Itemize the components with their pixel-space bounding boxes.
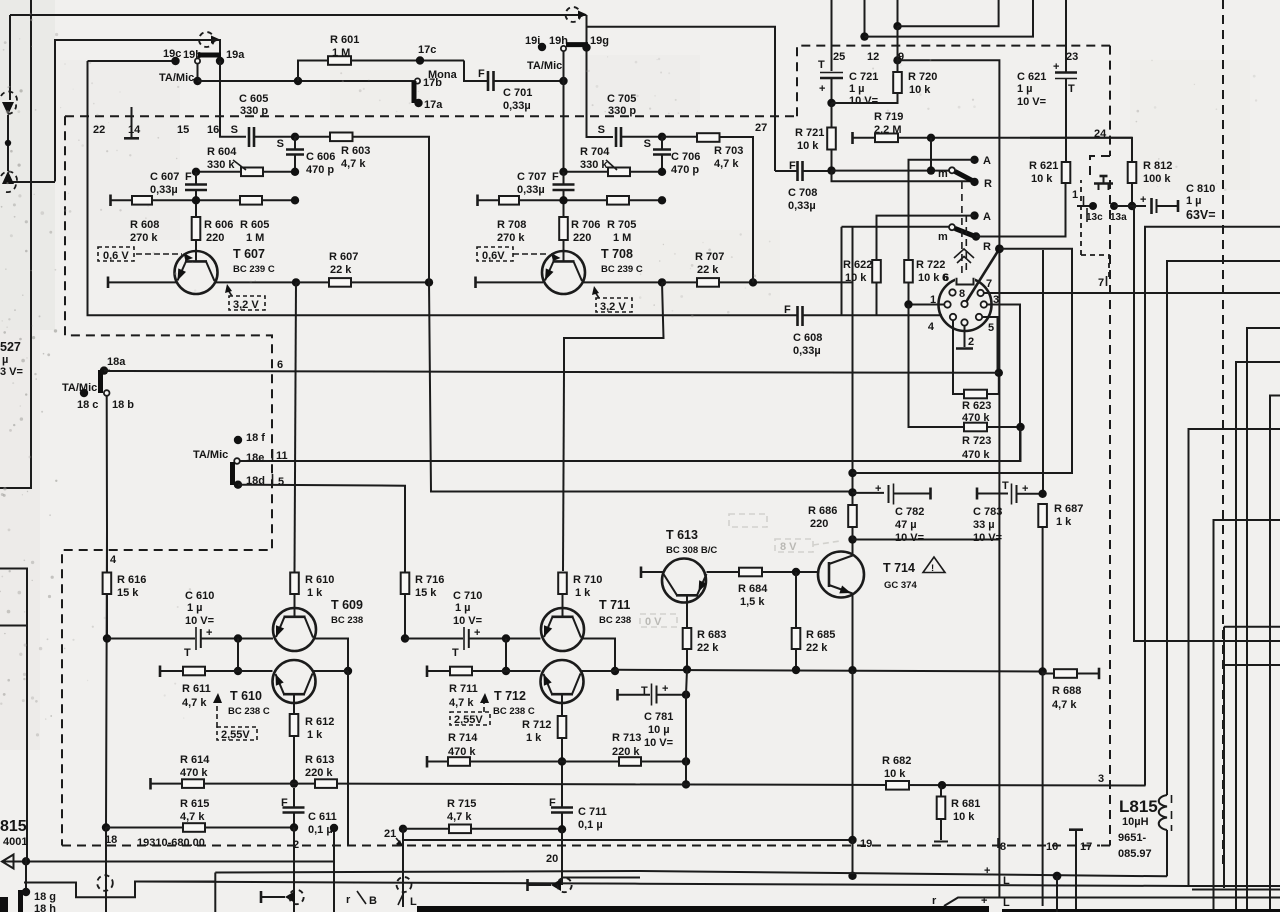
resistor R710 vertical [558,573,567,595]
node R719/x931 [927,134,935,142]
wire y=170.6 to pivot [832,170,950,172]
pin4 wire down [953,320,964,394]
svg-text:10 k: 10 k [797,140,819,152]
node C610/T609 [234,634,242,642]
svg-text:1 µ: 1 µ [849,83,865,95]
svg-text:12: 12 [867,51,879,63]
node arm top [995,244,1004,253]
svg-text:R 685: R 685 [806,629,835,641]
svg-text:R 706: R 706 [571,219,600,231]
wire head right stub [562,877,640,879]
svg-text:19h: 19h [549,35,568,47]
svg-text:23: 23 [1066,51,1078,63]
wire column x=662 down corner to x=564 [564,282,664,371]
svg-text:TA/Mic: TA/Mic [159,72,194,84]
svg-text:T 712: T 712 [494,689,526,703]
resistor R611 [183,667,205,676]
wire T613 base left [641,571,663,573]
resistor R613 [315,779,337,788]
svg-text:T: T [818,59,825,71]
svg-text:10 V=: 10 V= [185,615,214,627]
svg-text:S: S [644,138,651,150]
svg-text:R 682: R 682 [882,755,911,767]
wire 19b drop [197,64,199,82]
svg-text:527: 527 [0,340,21,354]
svg-text:C 721: C 721 [849,71,878,83]
wire x=106 down [105,828,107,912]
resistor R607 [329,278,351,287]
wire R608 row [111,199,295,201]
head terminal bar mid [526,879,529,891]
wire R623 right up [987,373,999,394]
node x429-rail/x852 [848,488,856,496]
svg-text:C 706: C 706 [671,151,700,163]
dot 18f [234,436,242,444]
svg-text:4: 4 [110,554,117,566]
resistor R601 [328,56,351,65]
terminal bar R708 [476,195,479,207]
svg-text:21: 21 [384,828,396,840]
node R704 right [658,168,666,176]
wire R812 bottom [1131,183,1133,206]
switch m1 lever [955,172,973,182]
wire L815 down to bottom bus [1166,830,1168,876]
svg-text:4,7 k: 4,7 k [182,697,207,709]
svg-text:L: L [1003,897,1010,909]
measure arrow 3.2V [228,290,232,296]
wire y=39.5 feeder [55,40,220,182]
arrow 21 [396,838,402,845]
svg-text:C 783: C 783 [973,506,1002,518]
terminal bar R608 [109,195,112,207]
connector circle half left edge top [1,91,17,114]
wire collector T708 [582,281,662,283]
wire pin3 col down corner left y=461 [238,427,1021,461]
svg-text:R 687: R 687 [1054,503,1083,515]
svg-text:18 c: 18 c [77,399,98,411]
svg-text:C 782: C 782 [895,506,924,518]
svg-text:TA/Mic: TA/Mic [193,449,228,461]
wire T609/610 junction down [347,671,349,846]
resistor R612 vertical [290,714,299,736]
svg-text:F: F [552,171,559,183]
wire T714 collector up [852,540,854,557]
wire C783 right [1017,493,1043,495]
contact open circle 19h [561,46,566,51]
wire emitter T607 [108,281,176,283]
node T714 collector [848,535,856,543]
svg-text:5: 5 [278,476,284,488]
transistor T708 [542,251,585,294]
svg-text:r: r [346,894,351,906]
svg-text:0,33µ: 0,33µ [517,184,545,196]
dot 18c [80,389,88,397]
svg-text:1 k: 1 k [1056,516,1072,528]
svg-text:1 M: 1 M [332,47,350,59]
svg-text:14: 14 [128,124,141,136]
svg-text:3,2 V: 3,2 V [600,301,626,313]
terminal bar C781 [616,689,619,701]
wire x=215 riser [214,873,216,912]
svg-text:R 721: R 721 [795,127,824,139]
node R708 junction [559,196,567,204]
svg-text:C 701: C 701 [503,87,532,99]
resistor R721 vertical [827,128,836,150]
svg-text:10 k: 10 k [918,272,940,284]
contact R1 [970,178,978,186]
svg-text:R 707: R 707 [695,251,724,263]
svg-text:19i: 19i [525,35,540,47]
ghost measure box 8V [775,539,813,552]
svg-text:R 711: R 711 [449,683,478,695]
svg-text:R 686: R 686 [808,505,837,517]
svg-text:R 607: R 607 [329,251,358,263]
svg-text:C 611: C 611 [308,811,337,823]
svg-text:C 608: C 608 [793,332,822,344]
terminal bar R714 [426,756,429,768]
node C711/R715 [558,825,566,833]
wire A2 to R622 column [877,216,975,260]
wire x=908 down to R723 [909,305,965,428]
test circle on x=106 [97,875,113,891]
svg-text:4: 4 [928,321,935,333]
node x=897.5 y=60 [893,56,901,64]
switch m2 lever [955,229,974,237]
capacitor C701 [488,71,494,91]
wire y=182 from diode stack [8,181,55,183]
svg-text:4,7 k: 4,7 k [714,158,739,170]
emitter terminal bar T708 [474,277,477,289]
svg-text:C 711: C 711 [578,806,607,818]
head wire mid [528,884,552,886]
svg-text:330 p: 330 p [240,105,268,117]
head arrow mid [551,879,561,891]
measure 2.55V arrow right [483,700,485,712]
pin 3 [981,301,987,307]
svg-text:0,6 V: 0,6 V [103,250,129,262]
measure box 0.6V right [477,247,513,261]
node C783/x1043 [1038,490,1046,498]
svg-text:R 723: R 723 [962,435,991,447]
svg-text:0,33µ: 0,33µ [793,345,821,357]
capacitor C783 [1011,484,1013,505]
corridor line 5 x=1213 [1214,520,1280,912]
wire R613 right long [337,783,640,786]
wire y=889.5 right [1192,889,1280,891]
pin 4 [950,314,956,320]
DIN notch [955,275,975,285]
svg-text:µ: µ [2,354,8,366]
svg-text:+: + [1053,61,1059,73]
boundary dashed top-right [797,46,1110,180]
corridor line 3 x=1167 + L815 [1167,261,1280,795]
svg-text:19g: 19g [590,35,609,47]
node C721 bottom [827,99,835,107]
node T609 out [344,667,352,675]
svg-text:1 M: 1 M [246,232,264,244]
node C611/R615 [290,823,298,831]
node T714e bus [848,666,856,674]
svg-text:22 k: 22 k [330,264,352,276]
wire R688 row [1043,672,1099,674]
svg-text:10 V=: 10 V= [644,737,673,749]
svg-text:BC 238 C: BC 238 C [493,706,535,717]
svg-text:R 611: R 611 [182,683,211,695]
resistor R708 [499,196,519,205]
pin 1 [944,301,950,307]
svg-text:33 µ: 33 µ [973,519,995,531]
svg-text:10 V=: 10 V= [973,532,1002,544]
svg-text:S: S [231,124,238,136]
transistor T712 inverted [541,660,584,716]
svg-text:10 k: 10 k [884,768,906,780]
bar right thin strip [1002,909,1280,912]
wire x=294 down [293,828,295,912]
svg-text:20: 20 [546,853,558,865]
wire T712 emitter row [428,670,541,672]
svg-text:4,7 k: 4,7 k [449,697,474,709]
svg-text:4001: 4001 [3,836,27,848]
svg-text:+: + [819,83,825,95]
corridor line 8 x=1247 [1247,328,1280,912]
node R684/T714 [792,568,800,576]
capacitor C608 [798,306,803,326]
svg-text:T: T [1068,83,1075,95]
svg-text:330 k: 330 k [580,159,608,171]
node test point circle top-left line [199,32,214,47]
wire T711 collector right [581,639,615,672]
svg-text:R 705: R 705 [607,219,636,231]
transistor T711 [541,608,584,651]
svg-text:7: 7 [1098,277,1104,289]
svg-text:C 708: C 708 [788,187,817,199]
svg-text:4,7 k: 4,7 k [180,811,205,823]
resistor R622 vertical [872,260,881,283]
wire R713 right [641,761,686,763]
resistor R682 on bus [886,781,909,790]
svg-text:8 V: 8 V [780,541,797,553]
node T708 collector column [658,278,666,286]
wire x=562 down to head [561,829,563,885]
svg-text:C 607: C 607 [150,171,179,183]
resistor R704 [608,168,630,177]
node R682 right [938,781,946,789]
svg-text:330 k: 330 k [207,159,235,171]
wire x=852 to bottom bus [852,840,854,876]
pin 2 [961,319,967,325]
resistor R705 [607,196,629,205]
svg-text:0,33µ: 0,33µ [503,100,531,112]
resistor R610 vertical [290,573,299,595]
capacitor C810 [1150,198,1153,214]
svg-text:18a: 18a [107,356,126,368]
warning triangle [923,557,945,573]
svg-text:4,7 k: 4,7 k [1052,699,1077,711]
capacitor C605 [249,127,254,147]
svg-text:1 µ: 1 µ [1186,195,1202,207]
node y=170.6 x=931 [927,166,935,174]
node C701 right [559,77,567,85]
corridor y=641 cross line [1134,640,1280,642]
wire R683 bottom [686,649,688,669]
svg-text:19310-680.00: 19310-680.00 [137,837,205,849]
wire T714 collector to x=999 [853,539,1000,541]
contact bar 19b-19a [198,53,221,58]
dashed box around button [1081,180,1109,280]
wire x=1043 from y=250 [1042,250,1044,494]
svg-text:R 710: R 710 [573,574,602,586]
measure box 3.2V [229,296,265,310]
transistor T610 inverted [273,660,316,713]
wire R707 to corner [719,281,853,283]
bottom bus 1 [2,861,334,863]
svg-text:8: 8 [1000,841,1006,853]
resistor R616 vertical [103,573,112,595]
svg-text:19: 19 [860,838,872,850]
node R601 corner [294,77,302,85]
wire column x=564 down to R710 [563,372,564,571]
svg-text:R 623: R 623 [962,400,991,412]
head circle mid [397,877,412,892]
capacitor C708 [798,161,803,181]
resistor R715 [449,825,471,834]
wire R614 row [151,783,316,785]
node 19 terminal [848,836,856,844]
resistor R720 vertical [893,72,902,93]
capacitor C621 electrolytic [1055,71,1077,74]
bottom bus 1 triangle arrow [2,855,14,869]
svg-text:BC 238: BC 238 [599,615,631,626]
pin 6 [949,289,955,295]
wire y=81 bus to Mona [198,80,418,82]
resistor R614 [182,779,204,788]
wire x=1066 top [1065,0,1067,72]
svg-text:R 715: R 715 [447,798,476,810]
wire R615 row [106,827,294,829]
linkage chevrons [954,249,974,263]
head arrow left [285,891,295,903]
wire R719 right [898,137,1132,139]
wire R607 to node [351,281,429,283]
svg-text:1 µ: 1 µ [187,602,203,614]
svg-text:17: 17 [1080,841,1092,853]
diode triangle down [2,102,14,115]
wire R685 bottom [795,649,797,670]
arrow on rail [578,11,587,19]
svg-text:10 k: 10 k [1031,173,1053,185]
svg-text:470 p: 470 p [671,164,699,176]
node C605/C606 [291,133,299,141]
svg-text:R 608: R 608 [130,219,159,231]
terminal bar R611 [159,666,162,678]
wire top rail y=15 [10,14,586,16]
svg-text:19c: 19c [163,48,181,60]
wire T613 emitter to R684 [707,571,740,573]
svg-text:6: 6 [277,359,283,371]
wire collector T607 [215,281,297,283]
node R608 junction [192,196,200,204]
node 18a [100,366,108,374]
terminal bar C783 [976,488,979,500]
svg-text:T: T [184,647,191,659]
node R707 mid [749,278,757,286]
svg-text:220 k: 220 k [612,746,640,758]
wire y=36.5 to corner x=1033 [865,0,1034,37]
node R604 right [291,168,299,176]
wire column x=429 down to C782 rail [429,282,852,491]
svg-text:C 705: C 705 [607,93,636,105]
capacitor C606 vertical [294,137,296,149]
svg-text:22: 22 [93,124,105,136]
svg-text:T 708: T 708 [601,247,633,261]
svg-text:L815: L815 [1119,797,1158,816]
svg-text:4,7 k: 4,7 k [447,811,472,823]
wire R708 row [478,199,662,201]
svg-text:10 k: 10 k [845,272,867,284]
capacitor C782 [888,485,890,503]
node C710/T711 [502,634,510,642]
resistor R719 [875,134,898,143]
dot 19i [538,43,546,51]
resistor R615 [183,823,205,832]
svg-text:C 710: C 710 [453,590,482,602]
wire y=26.2 to corner x=999 [898,0,999,26]
measure box 2.55V [217,727,257,740]
wire C710 right [469,638,541,640]
svg-text:R 605: R 605 [240,219,269,231]
right boundary dashed x=1223 [1222,0,1224,869]
node C610 left [103,634,111,642]
node x=897.5 y=26 [893,22,901,30]
svg-text:5: 5 [988,322,994,334]
capacitor C706 vertical [661,137,663,149]
switch m2 pivot [949,224,955,230]
terminal bar R719 [851,132,854,144]
wire T714e down [852,670,854,840]
wire y=103 to R720 [832,93,898,103]
svg-text:0,1 µ: 0,1 µ [308,824,333,836]
resistor R687 vertical [1038,504,1047,527]
svg-text:TA/Mic: TA/Mic [62,382,97,394]
wire x=753 up [752,228,754,282]
terminal bar R711 [426,666,429,678]
svg-text:F: F [478,68,485,80]
svg-text:1 µ: 1 µ [1017,83,1033,95]
svg-text:R: R [984,178,992,190]
wire R684 right [762,571,819,573]
svg-text:T 613: T 613 [666,528,698,542]
wire x=832 top [831,0,833,71]
resistor R681 vertical [937,797,946,820]
contact open circle 19b [195,58,200,63]
resistor R685 vertical [792,628,801,649]
wire node right to x=1072 drop [999,249,1072,474]
svg-text:R 610: R 610 [305,574,334,586]
head circle right [557,878,571,892]
wire R2 to R621 corner [976,183,1066,237]
contact dot 17a [414,99,422,107]
svg-text:+: + [206,627,212,639]
svg-text:3 V=: 3 V= [0,366,23,378]
terminal bar C782 [929,488,932,500]
ground bar R681 [934,841,948,843]
svg-text:R 716: R 716 [415,574,444,586]
contact bar 18a [98,370,103,393]
resistor R703 [697,133,720,142]
pin7 wire long right [984,292,1280,294]
measure 2.55V arrow [216,700,218,727]
node 18d [234,481,242,489]
